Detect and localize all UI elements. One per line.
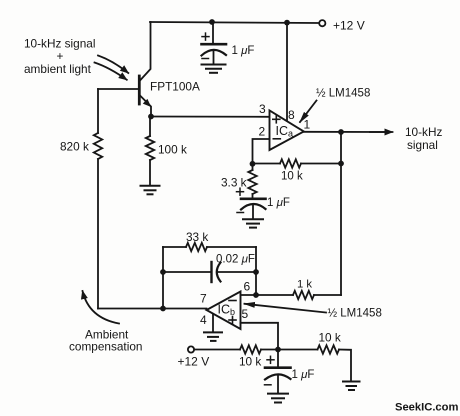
capacitor C1 1uF — [202, 22, 227, 64]
resistor R2 100k — [146, 136, 154, 160]
wire ICb loop left vertical — [162, 247, 164, 309]
arrow output signal — [370, 131, 393, 133]
node cap right junction — [253, 269, 259, 275]
node junction top rail to C1 — [209, 19, 215, 25]
node cap left junction — [160, 269, 166, 275]
svg-text:1 μF: 1 μF — [232, 45, 255, 57]
node pin6 junction — [253, 292, 259, 298]
wire ICa output — [304, 131, 387, 133]
capacitor C3 0.02uF — [163, 262, 256, 282]
wire 33k left — [163, 246, 186, 248]
wire 10k to right vertical — [301, 163, 341, 165]
svg-text:3: 3 — [259, 102, 266, 116]
ground below C2 — [243, 219, 263, 227]
capacitor C2 1uF — [237, 188, 266, 218]
ground right bottom — [343, 382, 360, 391]
svg-text:100 k: 100 k — [158, 143, 187, 157]
resistor R5 33k — [186, 243, 207, 251]
svg-text:7: 7 — [200, 292, 207, 306]
wire emitter node down to 100k — [149, 117, 151, 137]
svg-text:SeekIC.com: SeekIC.com — [395, 401, 458, 413]
wire node to 10k — [253, 163, 281, 165]
wire pin8 drop from rail — [286, 23, 288, 121]
capacitor C4 1uF — [265, 350, 291, 394]
svg-text:1 k: 1 k — [297, 278, 312, 290]
node bottom junction — [275, 347, 281, 353]
transistor Q1 FPT100A — [139, 22, 151, 117]
ground below C4 — [268, 394, 288, 403]
wire base to left rail — [98, 88, 138, 90]
wire 10k to node — [261, 349, 278, 351]
svg-text:10-kHz: 10-kHz — [405, 125, 442, 139]
wire right vertical bus — [340, 132, 342, 295]
wire top supply rail — [150, 22, 319, 23]
svg-text:10 k: 10 k — [319, 330, 341, 344]
svg-text:820 k: 820 k — [60, 140, 89, 154]
resistor R4 3.3k — [252, 164, 254, 170]
wire 1k to right bus — [314, 294, 341, 296]
node emitter junction — [148, 114, 154, 120]
wire pin 2 stub — [253, 139, 270, 164]
svg-text:4: 4 — [200, 313, 207, 327]
label 10-kHz signal + ambient light — [24, 36, 95, 76]
svg-text:33 k: 33 k — [186, 230, 208, 244]
svg-text:ambient light: ambient light — [24, 62, 92, 76]
ground below 100k — [141, 186, 160, 195]
arrow to ICa — [300, 101, 317, 123]
wire pin 6 stub — [241, 294, 257, 296]
svg-text:½ LM1458: ½ LM1458 — [316, 87, 370, 99]
wire left vertical upper (base to 820k) — [97, 89, 99, 133]
svg-text:10 k: 10 k — [281, 170, 303, 182]
svg-text:+12 V: +12 V — [333, 19, 365, 33]
svg-text:6: 6 — [244, 280, 251, 294]
svg-text:1 μF: 1 μF — [292, 369, 315, 381]
wire 100k to ground — [149, 160, 151, 185]
svg-text:3.3 k: 3.3 k — [221, 175, 247, 189]
node junction top rail to ICa pin 8 — [284, 20, 290, 26]
arrow ambient compensation — [83, 291, 120, 324]
wire left vertical lower (820k to ICb output) — [97, 159, 99, 309]
light arrow lower — [95, 63, 127, 80]
wire pin6 to 1k — [256, 294, 293, 296]
resistor R7 10k — [240, 345, 261, 353]
terminal +12V bottom (open circle) — [188, 346, 194, 352]
svg-text:0.02 μF: 0.02 μF — [216, 253, 255, 265]
resistor R3 10k feedback — [280, 159, 301, 167]
resistor R1 820k — [94, 133, 102, 159]
wire 33k right — [207, 246, 256, 248]
resistor R8 10k — [318, 345, 340, 353]
svg-text:signal: signal — [407, 138, 438, 152]
wire emitter node to ICa pin 3 — [151, 116, 270, 118]
ground below pin 4 — [204, 332, 222, 341]
svg-text:compensation: compensation — [69, 340, 142, 354]
node feedback junction — [250, 161, 256, 167]
wire pin 5 stub — [241, 323, 279, 350]
wire pin 4 stub — [212, 314, 214, 332]
svg-text:FPT100A: FPT100A — [150, 80, 200, 94]
ground below C1 — [202, 65, 226, 73]
terminal +12V top (open circle) — [319, 20, 325, 26]
node output loop junction — [160, 306, 166, 312]
wire ICb loop right vertical — [255, 247, 257, 295]
svg-text:+: + — [57, 49, 64, 63]
node output junction — [338, 129, 344, 135]
svg-text:+12 V: +12 V — [178, 354, 210, 368]
label 10-kHz signal output — [405, 125, 442, 152]
svg-text:2: 2 — [259, 125, 266, 139]
node 10k right junction — [338, 161, 344, 167]
svg-text:5: 5 — [242, 307, 249, 321]
wire ICb output to left — [98, 308, 207, 310]
wire +12V to 10k — [194, 349, 240, 351]
wire 10k to ground right — [339, 350, 351, 382]
label Ambient compensation — [69, 327, 142, 353]
op-amp U2 ICb — [207, 292, 241, 330]
svg-text:1 μF: 1 μF — [267, 197, 290, 209]
wire node to 10k right — [278, 349, 318, 351]
resistor R6 1k — [293, 291, 314, 299]
svg-text:½ LM1458: ½ LM1458 — [328, 307, 382, 319]
arrow to ICb — [245, 304, 327, 313]
light arrow upper — [98, 56, 128, 74]
svg-text:8: 8 — [288, 108, 295, 122]
svg-text:10 k: 10 k — [239, 354, 261, 368]
op-amp U1 ICa — [270, 111, 304, 151]
svg-text:1: 1 — [304, 117, 311, 131]
